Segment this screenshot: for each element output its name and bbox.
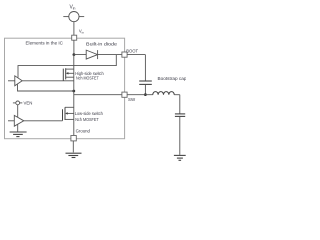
svg-text:SW: SW xyxy=(128,97,136,102)
svg-text:Built-in diode: Built-in diode xyxy=(86,42,118,47)
svg-text:Nch MOSFET: Nch MOSFET xyxy=(76,76,99,81)
svg-text:BOOT: BOOT xyxy=(126,48,138,53)
svg-text:Low-side switch: Low-side switch xyxy=(75,111,104,116)
svg-text:Nch MOSFET: Nch MOSFET xyxy=(75,117,99,122)
svg-text:in: in xyxy=(82,30,85,34)
svg-text:in: in xyxy=(73,6,76,10)
svg-text:VEN: VEN xyxy=(24,101,33,106)
svg-text:Elements in the IC: Elements in the IC xyxy=(26,41,64,46)
svg-text:Bootstrap capacitor: Bootstrap capacitor xyxy=(158,76,187,81)
svg-text:Ground: Ground xyxy=(76,128,91,133)
